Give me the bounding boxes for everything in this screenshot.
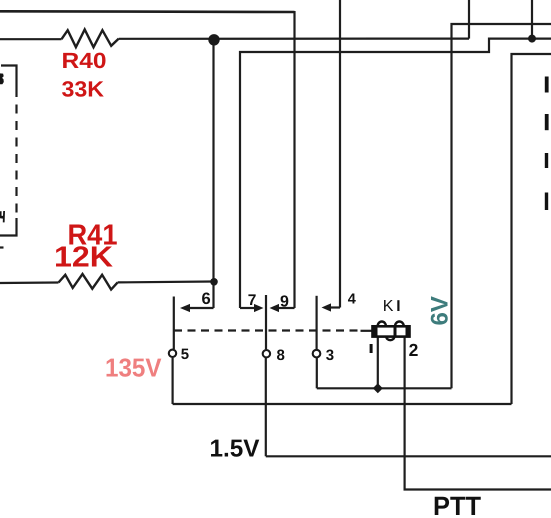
svg-text:6: 6: [202, 290, 211, 308]
wire box top right y54: [512, 54, 551, 404]
terminal circle 3: [313, 350, 321, 358]
wire top right y24: [452, 24, 551, 388]
arrowhead switch 9: [270, 304, 280, 312]
pin label 1: [370, 344, 373, 353]
arrowhead switch 4: [322, 303, 332, 311]
wire relay pin 2 down to PTT: [405, 337, 551, 490]
wire switch contact 8 lower to 1.5V: [265, 358, 267, 457]
wire switch arrow 4 horizontal: [331, 306, 341, 308]
partial pin label 4 at left edge: [0, 211, 5, 222]
junction node top right: [528, 35, 536, 43]
wire switch contact 3 lower: [316, 357, 318, 388]
wire switch contact 3 upper: [316, 296, 318, 349]
svg-text:PTT: PTT: [433, 491, 481, 518]
wire switch arrow 7 horizontal: [240, 307, 255, 309]
terminal circle 8: [263, 350, 270, 357]
wire top bus: [0, 10, 295, 13]
relay K1 top loop 2: [395, 322, 404, 327]
wire R41 right lead: [118, 280, 214, 283]
wire R40 right lead to corner: [119, 37, 469, 39]
svg-text:8: 8: [277, 347, 285, 364]
svg-text:R40: R40: [62, 48, 107, 73]
relay K1 bottom loop: [386, 337, 394, 341]
svg-text:9: 9: [280, 294, 289, 311]
junction node pin1 / y388: [373, 383, 383, 393]
svg-text:2: 2: [409, 340, 419, 360]
wire R41 left lead: [0, 281, 59, 284]
resistor R41: [59, 274, 118, 290]
arrowhead switch 7: [254, 304, 264, 312]
terminal circle 5: [169, 350, 176, 357]
junction node R40/R41 column: [208, 34, 219, 45]
right edge component marks: [545, 77, 549, 93]
wire switch contact 8 upper: [265, 295, 267, 349]
dashed box bracket top: [1, 66, 17, 89]
wire 135V bus y404: [173, 403, 512, 405]
svg-text:33K: 33K: [62, 77, 105, 102]
wire relay stub: [361, 330, 373, 332]
wire node line y388: [317, 387, 452, 389]
dashed box side dashed: [15, 88, 17, 218]
arrowhead switch 6: [180, 304, 190, 312]
svg-text:K: K: [383, 298, 394, 315]
wire vertical from top bus to switch arrow 9: [293, 11, 295, 308]
wire switch arrow 6 horizontal: [188, 307, 214, 309]
dashed box bracket bottom: [0, 218, 17, 236]
partial pin label 5 at left edge: [0, 73, 4, 84]
svg-text:4: 4: [348, 292, 356, 308]
junction node R41: [210, 278, 218, 286]
wire 1.5V line: [266, 455, 551, 457]
svg-text:1.5V: 1.5V: [210, 436, 261, 463]
svg-text:6V: 6V: [427, 296, 454, 325]
wire vertical x213.5 from node to switch arrow 6: [212, 39, 214, 308]
relay K1 top loop 1: [378, 322, 386, 327]
svg-text:135V: 135V: [105, 353, 162, 383]
svg-text:5: 5: [181, 346, 189, 363]
svg-text:12K: 12K: [54, 242, 113, 274]
wire top right y38.6 with step: [240, 39, 551, 308]
wire R40 left lead: [0, 38, 62, 40]
wire switch contact 5 upper: [173, 297, 175, 350]
wire switch arrow 9 horizontal: [279, 307, 295, 309]
svg-text:7: 7: [248, 292, 257, 309]
relay K1 body end caps: [373, 326, 378, 336]
wire relay pin 1 down: [377, 337, 379, 389]
wire vertical x532 from top edge: [531, 0, 533, 39]
tick mark left edge: [0, 246, 4, 248]
wire mechanical link dashed: [174, 329, 361, 331]
svg-text:3: 3: [326, 347, 334, 364]
wire switch contact 5 lower to bus: [172, 358, 174, 404]
wire vertical x469 to top edge: [468, 0, 470, 39]
resistor R40: [62, 30, 119, 48]
wire vertical x340 from top edge to switch arrow 4: [339, 0, 341, 308]
relay K1 coil body: [373, 326, 410, 336]
